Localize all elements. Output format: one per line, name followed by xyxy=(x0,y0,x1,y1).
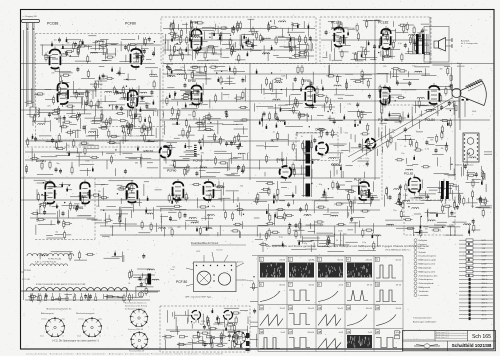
svg-text:120x15: 120x15 xyxy=(365,308,372,310)
svg-text:6 AT 1 - PCF80 PCL82: 6 AT 1 - PCF80 PCL82 xyxy=(35,261,57,264)
svg-text:PY88: PY88 xyxy=(277,158,285,162)
svg-text:EF80: EF80 xyxy=(303,79,311,83)
svg-text:Tuner: Tuner xyxy=(170,268,175,271)
svg-text:250 %: 250 % xyxy=(482,283,488,285)
svg-text:braun: braun xyxy=(77,336,81,338)
svg-text:68k: 68k xyxy=(93,86,96,88)
svg-text:PL36: PL36 xyxy=(354,177,362,181)
svg-text:1n: 1n xyxy=(78,89,80,91)
svg-text:70x15: 70x15 xyxy=(280,308,286,310)
svg-text:Trommel: Trommel xyxy=(216,249,223,252)
svg-text:1M: 1M xyxy=(230,40,233,42)
svg-text:EBC91: EBC91 xyxy=(144,149,154,153)
svg-text:1,5M: 1,5M xyxy=(358,158,363,160)
svg-text:10n: 10n xyxy=(54,39,57,41)
svg-text:47k: 47k xyxy=(430,139,433,141)
svg-text:blau: blau xyxy=(62,319,65,321)
svg-text:Sch 165: Sch 165 xyxy=(472,334,491,340)
svg-text:40x10: 40x10 xyxy=(396,260,402,262)
svg-text:0,5W: 0,5W xyxy=(482,256,487,258)
svg-text:Wechselstromgerät: Wechselstromgerät xyxy=(76,312,95,315)
svg-text:-13V =+: -13V =+ xyxy=(205,160,214,162)
svg-text:6913-58: 6913-58 xyxy=(457,66,465,68)
svg-text:100k: 100k xyxy=(360,47,364,49)
svg-text:50x15: 50x15 xyxy=(396,332,402,334)
svg-text:1 W: 1 W xyxy=(482,252,486,254)
svg-text:Anschluß: Anschluß xyxy=(461,40,470,43)
svg-text:Anschluß des Gerätes an: Anschluß des Gerätes an xyxy=(125,302,146,305)
svg-text:1,5M: 1,5M xyxy=(449,224,454,226)
svg-text:10n: 10n xyxy=(244,106,247,108)
svg-text:PCF80: PCF80 xyxy=(193,158,203,162)
svg-text:4,7k: 4,7k xyxy=(320,224,324,226)
svg-text:Bildrohr-Anschlüsse: Bildrohr-Anschlüsse xyxy=(455,164,474,167)
svg-text:Bearb. Gepr. 12.3: Bearb. Gepr. 12.3 xyxy=(436,337,449,339)
svg-text:EF80: EF80 xyxy=(188,79,196,83)
svg-text:1n: 1n xyxy=(422,197,424,199)
svg-text:PCL86: PCL86 xyxy=(378,118,388,122)
svg-text:Zeilenamplitude: Zeilenamplitude xyxy=(419,282,435,285)
svg-text:30 %: 30 % xyxy=(482,287,487,289)
svg-text:PCC88: PCC88 xyxy=(74,92,85,96)
svg-text:68k: 68k xyxy=(135,163,138,165)
svg-text:4V 15: 4V 15 xyxy=(396,285,402,287)
svg-text:EF80: EF80 xyxy=(190,21,198,25)
svg-text:1 W: 1 W xyxy=(482,260,486,262)
svg-text:50 %: 50 % xyxy=(482,307,487,309)
svg-text:= - Eingang 240: = - Eingang 240 xyxy=(23,16,38,18)
svg-text:PCL82: PCL82 xyxy=(331,21,341,25)
svg-text:Trimmpotentiometer: Trimmpotentiometer xyxy=(413,317,432,320)
svg-text:24x10: 24x10 xyxy=(280,260,286,262)
svg-text:PCC 88: PCC 88 xyxy=(22,279,30,281)
svg-text:für 2. Lautsprecher: für 2. Lautsprecher xyxy=(461,42,478,45)
svg-text:EY86 PCL86 EF85 ECH81 EBC9: EY86 PCL86 EF85 ECH81 EBC91 PC500 PL36 P… xyxy=(36,284,86,286)
svg-text:Lizenz-Schaltung · Nachdruck v: Lizenz-Schaltung · Nachdruck verboten · … xyxy=(26,352,223,355)
svg-text:4V 15: 4V 15 xyxy=(367,285,373,287)
svg-text:Bildfrequenz_grob: Bildfrequenz_grob xyxy=(419,260,437,262)
svg-text:Helligkeit: Helligkeit xyxy=(419,239,428,242)
svg-text:5k: 5k xyxy=(404,146,406,148)
svg-text:PCF 80: PCF 80 xyxy=(121,125,132,129)
svg-text:10n: 10n xyxy=(401,153,404,155)
svg-text:Schärfe: Schärfe xyxy=(419,252,427,254)
svg-text:920x50: 920x50 xyxy=(307,332,314,334)
svg-text:Änderungen vorbehalten!: Änderungen vorbehalten! xyxy=(413,321,437,324)
svg-text:4,7k: 4,7k xyxy=(264,236,268,238)
svg-text:ECH81: ECH81 xyxy=(36,159,46,163)
svg-text:1M: 1M xyxy=(441,148,444,150)
svg-text:PCF80: PCF80 xyxy=(24,270,32,272)
svg-text:1,5M: 1,5M xyxy=(403,195,408,197)
svg-text:47k: 47k xyxy=(345,132,348,134)
svg-text:1M: 1M xyxy=(440,69,443,71)
svg-text:100 %: 100 % xyxy=(482,295,488,297)
svg-text:24x10: 24x10 xyxy=(309,260,315,262)
svg-text:Antenne: Antenne xyxy=(237,261,243,264)
svg-text:DY86: DY86 xyxy=(316,127,324,131)
svg-text:4,7k: 4,7k xyxy=(194,167,198,169)
svg-text:100k: 100k xyxy=(85,160,89,162)
svg-text:TELEFUNKEN: TELEFUNKEN xyxy=(422,349,433,351)
svg-text:Drucktastensperre: Drucktastensperre xyxy=(419,255,437,258)
svg-text:Bearb. Gepr. 12.3: Bearb. Gepr. 12.3 xyxy=(436,332,449,334)
svg-text:68k: 68k xyxy=(201,153,204,155)
svg-text:Fassung 6X62-48: Fassung 6X62-48 xyxy=(128,329,143,331)
svg-text:100k: 100k xyxy=(338,231,342,233)
svg-text:5k: 5k xyxy=(336,240,338,242)
svg-text:Schaltbild 1021SB: Schaltbild 1021SB xyxy=(452,343,493,348)
svg-text:Zeilenfrequenz: Zeilenfrequenz xyxy=(419,279,433,281)
svg-text:4,7k: 4,7k xyxy=(34,140,38,142)
svg-text:Bildfrequenz_fein: Bildfrequenz_fein xyxy=(419,271,436,273)
svg-text:170x15: 170x15 xyxy=(307,308,314,310)
svg-text:80x10: 80x10 xyxy=(367,260,373,262)
svg-text:5,6V: 5,6V xyxy=(482,244,487,246)
svg-text:Bildamplitude: Bildamplitude xyxy=(419,266,433,269)
svg-text:PCC88 PCC88: PCC88 PCC88 xyxy=(72,110,87,112)
svg-text:Fassung 6X62-48: Fassung 6X62-48 xyxy=(129,351,144,353)
svg-text:Spannung und die Erdung: Spannung und die Erdung xyxy=(125,305,147,308)
svg-text:der Antenne beachten !: der Antenne beachten ! xyxy=(125,308,145,311)
svg-text:47k: 47k xyxy=(436,113,439,115)
svg-text:50x15: 50x15 xyxy=(338,308,344,310)
svg-text:UKW: UKW xyxy=(196,251,200,253)
svg-text:490 %: 490 % xyxy=(482,275,488,277)
svg-text:Allstromgerät: Allstromgerät xyxy=(41,312,54,315)
svg-text:30 %: 30 % xyxy=(482,315,487,317)
svg-text:( Prüf-TMB Muster 6082 f s ): ( Prüf-TMB Muster 6082 f s ) xyxy=(385,249,411,252)
svg-text:Zeilentrafo 120 W und Abl. 1: Zeilentrafo 120 W und Abl. 110 xyxy=(297,132,322,135)
svg-text:75 %: 75 % xyxy=(482,311,487,313)
svg-text:5k: 5k xyxy=(128,283,130,285)
svg-text:Bearb. Gepr. 12.3: Bearb. Gepr. 12.3 xyxy=(436,334,449,336)
svg-text:75 %: 75 % xyxy=(482,291,487,293)
svg-text:Lautstärke: Lautstärke xyxy=(419,294,430,297)
svg-text:10n: 10n xyxy=(121,90,124,92)
svg-text:( erstmalig eingesetzt 10.187: ( erstmalig eingesetzt 10.187 ) xyxy=(460,348,483,351)
svg-text:Bildlinearität: Bildlinearität xyxy=(419,286,431,289)
svg-text:10n: 10n xyxy=(412,65,415,67)
svg-text:Tastenaggregat UKW/TV-Umschal: Tastenaggregat UKW/TV-Umschaltung xyxy=(107,135,144,138)
svg-text:Tonblende: Tonblende xyxy=(419,291,430,293)
svg-text:47k: 47k xyxy=(51,73,54,75)
svg-text:Phase: Phase xyxy=(419,248,426,250)
svg-text:380 %: 380 % xyxy=(482,279,488,281)
svg-text:PCF 80: PCF 80 xyxy=(176,280,187,284)
svg-text:12k: 12k xyxy=(449,123,452,125)
svg-text:0,4 %: 0,4 % xyxy=(482,318,487,320)
svg-text:32x10: 32x10 xyxy=(309,285,315,287)
svg-text:1n: 1n xyxy=(184,199,186,201)
svg-text:UHF - Konverter NSF Type...: UHF - Konverter NSF Type... xyxy=(185,296,213,299)
svg-text:Zeilenfrequenz_fein: Zeilenfrequenz_fein xyxy=(419,275,439,277)
svg-text:Bildfrequenz_fein: Bildfrequenz_fein xyxy=(419,264,436,266)
svg-text:Zusatzbandfilter für Tonteil: Zusatzbandfilter für Tonteil xyxy=(191,242,218,245)
svg-text:80x15: 80x15 xyxy=(280,285,286,287)
svg-text:Gesamtstromaufnahme für: Gesamtstromaufnahme für xyxy=(46,308,72,311)
svg-text:100k: 100k xyxy=(281,76,285,78)
svg-text:1M: 1M xyxy=(187,70,190,72)
svg-text:Kontrast: Kontrast xyxy=(419,243,427,246)
svg-text:100k: 100k xyxy=(336,157,340,159)
svg-text:500 %: 500 % xyxy=(482,299,488,301)
svg-text:1 W: 1 W xyxy=(482,248,486,250)
svg-text:1M: 1M xyxy=(425,228,428,230)
svg-text:4,7k: 4,7k xyxy=(425,149,429,151)
svg-text:1,5M: 1,5M xyxy=(350,28,355,30)
svg-text:80x10: 80x10 xyxy=(338,260,344,262)
svg-text:Bei d.: Bei d. xyxy=(457,63,463,65)
svg-text:Fassung 6X62-48: Fassung 6X62-48 xyxy=(228,348,243,350)
svg-text:0,5W: 0,5W xyxy=(482,264,487,266)
svg-text:10n: 10n xyxy=(318,206,321,208)
svg-text:schwarz: schwarz xyxy=(78,319,84,321)
svg-text:( 4.11. Die Spannungen von un: ( 4.11. Die Spannungen von unten gesehen… xyxy=(52,340,99,343)
svg-text:1M: 1M xyxy=(318,136,321,138)
svg-text:5000: 5000 xyxy=(472,111,476,113)
svg-text:1,5M: 1,5M xyxy=(168,228,173,230)
svg-text:5,7V: 5,7V xyxy=(482,240,487,242)
svg-text:PCL82: PCL82 xyxy=(404,171,414,175)
svg-text:ECH81: ECH81 xyxy=(73,206,84,210)
svg-text:Alle Spannungen und Ströme gem: Alle Spannungen und Ströme gemessen bei … xyxy=(266,245,429,248)
svg-text:1,5M: 1,5M xyxy=(201,321,206,323)
svg-text:4,7k: 4,7k xyxy=(180,67,184,69)
svg-text:1n: 1n xyxy=(301,136,303,138)
svg-text:schwarz: schwarz xyxy=(41,319,47,321)
svg-text:Ausgang: Ausgang xyxy=(247,279,254,282)
svg-text:70x15: 70x15 xyxy=(396,308,402,310)
svg-text:PCC88: PCC88 xyxy=(47,22,58,26)
svg-text:1n: 1n xyxy=(273,131,275,133)
svg-text:braun: braun xyxy=(40,336,44,338)
svg-text:PCF80 PCL82: PCF80 PCL82 xyxy=(48,259,62,261)
svg-text:4,7k: 4,7k xyxy=(191,322,195,324)
svg-text:blau: blau xyxy=(99,319,102,321)
svg-text:PCL82: PCL82 xyxy=(378,21,388,25)
svg-text:4,7k: 4,7k xyxy=(266,38,270,40)
svg-text:PCF80: PCF80 xyxy=(167,168,177,172)
svg-text:47k: 47k xyxy=(383,66,386,68)
svg-text:PCF80: PCF80 xyxy=(125,22,136,26)
svg-text:250 %: 250 % xyxy=(482,303,488,305)
svg-text:PCL84: PCL84 xyxy=(425,118,435,122)
svg-text:12k: 12k xyxy=(98,191,101,193)
svg-text:1M: 1M xyxy=(67,43,70,45)
